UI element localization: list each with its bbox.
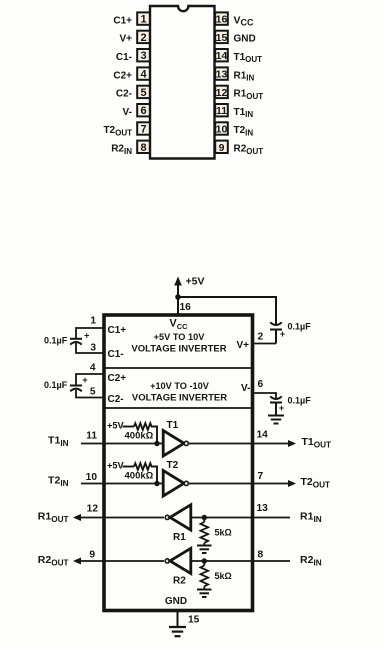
svg-text:8: 8 (258, 550, 264, 561)
svg-text:3: 3 (140, 50, 146, 62)
+5V pullup label T1 (107, 421, 124, 431)
C1 value 0.1uF (44, 336, 68, 346)
pin 2 box (137, 31, 150, 44)
T1IN label (48, 435, 69, 449)
pin 8 box (137, 141, 150, 154)
svg-text:10: 10 (86, 472, 98, 483)
capacitor C1 0.1uF (70, 331, 89, 345)
+5V supply arrow (174, 277, 182, 298)
svg-text:0.1µF: 0.1µF (44, 380, 68, 390)
svg-text:4: 4 (140, 69, 147, 81)
VOLTAGE INVERTER 2 label (132, 393, 227, 404)
wire pin 13 stub (253, 517, 291, 519)
C4 value 0.1uF (288, 396, 312, 406)
svg-text:13: 13 (257, 503, 269, 514)
wire pin 3 stub (76, 343, 104, 353)
pin 2 number (258, 332, 264, 343)
ground symbol R5 (197, 546, 212, 554)
svg-text:2: 2 (140, 32, 146, 44)
receiver R1 (165, 505, 191, 530)
svg-text:14: 14 (257, 430, 269, 441)
pin 13 box (215, 67, 228, 80)
svg-text:VOLTAGE INVERTER: VOLTAGE INVERTER (131, 344, 226, 355)
R1IN label (300, 511, 322, 525)
IC package U1 16-pin DIP body (150, 6, 215, 159)
wire pin 1 stub (76, 328, 104, 338)
VCC label (169, 318, 188, 332)
R2 designator (173, 576, 186, 587)
svg-text:3: 3 (90, 343, 96, 354)
svg-text:T2: T2 (167, 460, 179, 471)
R1 designator (173, 532, 186, 543)
svg-text:2: 2 (258, 332, 264, 343)
svg-text:15: 15 (188, 615, 200, 626)
main IC block U1 (104, 315, 253, 611)
pin 1 number (90, 316, 96, 327)
svg-text:12: 12 (216, 87, 228, 99)
C1+ port label (108, 325, 127, 336)
pin 1 box (137, 12, 150, 25)
C2+ port label (108, 373, 127, 384)
T2IN label (48, 475, 69, 489)
wire pin 10 stub T2IN (81, 483, 104, 485)
pin 16 label VCC (234, 14, 255, 27)
junction T2 input node (154, 481, 159, 486)
pin 6 number (258, 379, 264, 390)
VOLTAGE INVERTER 1 label (131, 344, 226, 355)
capacitor C2 0.1uF (70, 375, 88, 391)
svg-text:8: 8 (140, 142, 146, 154)
pin 2 label V+ (119, 34, 132, 45)
svg-text:11: 11 (86, 431, 97, 442)
pin 12 label R1OUT (234, 89, 264, 101)
svg-text:10: 10 (216, 124, 228, 136)
pin 7 box (137, 122, 150, 135)
svg-text:5: 5 (90, 387, 96, 398)
svg-text:V-: V- (241, 383, 250, 394)
pin 8 number (258, 550, 264, 561)
pin 3 label C1- (116, 52, 132, 63)
GND port label (165, 596, 187, 607)
T2 designator (167, 460, 179, 471)
junction R2 input node (202, 558, 207, 563)
capacitor C4 0.1uF V- bypass (270, 396, 284, 415)
pin 8 label R2IN (111, 144, 132, 156)
pin 4 box (137, 67, 150, 80)
svg-text:13: 13 (216, 69, 228, 81)
wire pin 4 stub (76, 374, 104, 385)
C3 value 0.1uF (288, 322, 312, 332)
svg-text:6: 6 (258, 379, 264, 390)
wire R2 output (106, 560, 165, 562)
C1- port label (108, 349, 124, 360)
wire +5V rail to bypass cap (178, 297, 276, 325)
section divider line 1 (104, 367, 253, 369)
T1 designator (167, 420, 179, 431)
svg-text:1: 1 (140, 14, 146, 26)
svg-text:7: 7 (258, 471, 264, 482)
C2- port label (108, 394, 124, 405)
R2OUT label (38, 554, 69, 568)
R4 value 400kOhm (125, 471, 154, 482)
wire pin 5 stub (76, 390, 104, 398)
svg-text:14: 14 (216, 50, 228, 62)
driver T1 (163, 431, 188, 457)
wire pin 15 GND (177, 611, 179, 627)
svg-text:4: 4 (90, 363, 96, 374)
pin 11 label T1IN (234, 107, 254, 119)
pin 14 box (215, 49, 228, 62)
svg-text:9: 9 (89, 550, 95, 561)
svg-text:C2+: C2+ (113, 70, 132, 81)
+5V pullup label T2 (107, 461, 124, 471)
svg-text:C2-: C2- (108, 394, 124, 405)
svg-text:C1-: C1- (116, 52, 132, 63)
pin 14 label T1OUT (234, 52, 263, 64)
pin 3 number (90, 343, 96, 354)
receiver R2 (165, 548, 191, 573)
wire pin 11 stub T1IN (81, 443, 104, 445)
svg-text:11: 11 (216, 105, 227, 117)
resistor R6 5k R2 input (201, 561, 209, 590)
driver T2 (163, 471, 188, 497)
wire pin 12 stub with arrow R1OUT (73, 514, 104, 521)
svg-text:1: 1 (90, 316, 96, 327)
svg-text:VOLTAGE INVERTER: VOLTAGE INVERTER (132, 393, 227, 404)
pin 15 number (188, 615, 200, 626)
svg-text:7: 7 (140, 124, 146, 136)
pin 13 label R1IN (234, 70, 255, 82)
svg-text:+: + (82, 375, 87, 385)
svg-text:+: + (279, 403, 284, 413)
pin 4 number (90, 363, 96, 374)
wire T2 input (106, 483, 164, 485)
+10V TO -10V label (150, 381, 210, 391)
svg-text:R2: R2 (173, 576, 186, 587)
wire T2 output (189, 483, 251, 485)
wire pin 6 stub (253, 393, 277, 400)
svg-text:GND: GND (165, 596, 187, 607)
svg-text:+5V: +5V (186, 276, 205, 288)
pin 13 number (257, 503, 269, 514)
pin 11 box (215, 104, 228, 117)
pin 15 label GND (234, 34, 256, 45)
wire pin 7 stub with arrow (253, 480, 297, 487)
pin 10 label T2IN (234, 125, 254, 137)
svg-text:+10V TO -10V: +10V TO -10V (150, 381, 210, 391)
svg-text:+5V: +5V (107, 461, 124, 471)
pin 16 number (180, 302, 192, 313)
pin 6 label V- (123, 107, 132, 118)
svg-text:+: + (280, 329, 285, 339)
junction T1 input node (154, 441, 159, 446)
V- port label (241, 383, 250, 394)
wire R1 input (191, 517, 251, 519)
wire T1 output (189, 443, 251, 445)
pin 14 number (257, 430, 269, 441)
T1OUT label (302, 436, 332, 450)
pin 3 box (137, 49, 150, 62)
svg-text:V+: V+ (119, 34, 132, 45)
svg-text:+: + (84, 331, 89, 341)
svg-text:V-: V- (123, 107, 132, 118)
svg-text:0.1µF: 0.1µF (44, 336, 68, 346)
pin 10 box (215, 122, 228, 135)
svg-text:C1-: C1- (108, 349, 124, 360)
pin 5 label C2- (116, 89, 132, 100)
resistor R3 400k pullup T1 (123, 423, 158, 443)
wire R2 input (191, 560, 251, 562)
pin 4 label C2+ (113, 70, 132, 81)
svg-text:T1: T1 (167, 420, 179, 431)
R1OUT label (38, 511, 69, 525)
wire pin 2 stub (253, 343, 277, 345)
svg-text:GND: GND (234, 34, 256, 45)
pin 7 label T2OUT (103, 125, 132, 137)
svg-text:5: 5 (140, 87, 146, 99)
svg-text:0.1µF: 0.1µF (288, 396, 312, 406)
svg-text:5kΩ: 5kΩ (215, 571, 232, 581)
resistor R5 5k R1 input (201, 518, 209, 546)
+5V TO 10V label (154, 332, 206, 342)
resistor R4 400k pullup T2 (123, 463, 158, 483)
pin 6 box (137, 104, 150, 117)
svg-text:400kΩ: 400kΩ (125, 431, 154, 442)
pin 9 number (89, 550, 95, 561)
pin 10 number (86, 472, 98, 483)
pin 12 box (215, 86, 228, 99)
pin 9 box (215, 141, 228, 154)
svg-text:+5V TO 10V: +5V TO 10V (154, 332, 206, 342)
svg-text:16: 16 (216, 14, 228, 26)
C2 value 0.1uF (44, 380, 68, 390)
svg-text:15: 15 (216, 32, 228, 44)
svg-text:C1+: C1+ (113, 15, 132, 26)
capacitor C3 0.1uF V+ bypass (270, 322, 285, 343)
svg-text:C1+: C1+ (108, 325, 127, 336)
svg-text:5kΩ: 5kΩ (215, 528, 232, 538)
svg-text:6: 6 (140, 105, 146, 117)
svg-text:9: 9 (219, 142, 225, 154)
pin 12 number (87, 504, 99, 515)
pin 11 number (86, 431, 97, 442)
T2OUT label (301, 476, 331, 490)
ground symbol GND pin 15 (169, 627, 186, 636)
ground symbol C4 (268, 416, 284, 424)
pin 15 box (215, 31, 228, 44)
junction R1 input node (202, 515, 207, 520)
svg-text:V+: V+ (236, 340, 249, 351)
wire pin 14 stub with arrow (253, 440, 297, 447)
pin 7 number (258, 471, 264, 482)
ground symbol R6 (197, 590, 212, 598)
svg-text:12: 12 (87, 504, 99, 515)
junction +5V node (175, 294, 181, 300)
pin 9 label R2OUT (234, 144, 264, 156)
pin 16 box (215, 12, 228, 25)
R6 value 5kOhm (215, 571, 232, 581)
R3 value 400kOhm (125, 431, 154, 442)
wire pin 9 stub with arrow R2OUT (73, 558, 104, 565)
V+ port label (236, 340, 249, 351)
pin 5 number (90, 387, 96, 398)
+5V supply label (186, 276, 205, 288)
svg-text:+5V: +5V (107, 421, 124, 431)
svg-text:C2+: C2+ (108, 373, 127, 384)
wire pin 8 stub (253, 560, 291, 562)
R2IN label (300, 554, 322, 568)
svg-text:C2-: C2- (116, 89, 132, 100)
section divider line 2 (104, 407, 253, 409)
pin 1 label C1+ (113, 15, 132, 26)
svg-text:400kΩ: 400kΩ (125, 471, 154, 482)
svg-text:0.1µF: 0.1µF (288, 322, 312, 332)
svg-text:R1: R1 (173, 532, 186, 543)
svg-text:16: 16 (180, 302, 192, 313)
R5 value 5kOhm (215, 528, 232, 538)
wire T1 input (106, 443, 164, 445)
wire R1 output (106, 517, 165, 519)
pin 5 box (137, 86, 150, 99)
wire pin 16 to VCC (177, 297, 179, 315)
